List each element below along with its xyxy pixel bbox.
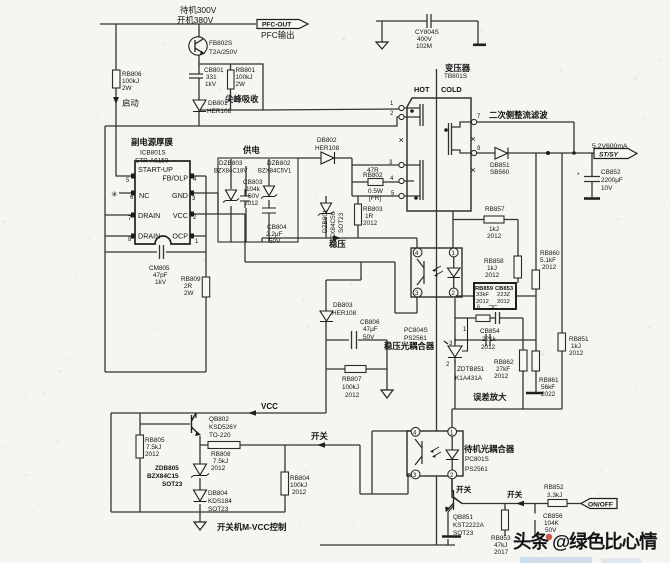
svg-text:副电源厚膜: 副电源厚膜 — [131, 137, 173, 147]
svg-text:RB851: RB851 — [569, 336, 589, 343]
svg-text:1kJ: 1kJ — [571, 343, 581, 350]
svg-text:104K: 104K — [544, 520, 560, 527]
svg-text:×: × — [471, 134, 476, 144]
svg-text:TB801S: TB801S — [444, 73, 467, 80]
svg-text:RB861: RB861 — [539, 377, 559, 384]
svg-text:变压器: 变压器 — [445, 63, 471, 73]
svg-text:2012: 2012 — [211, 465, 226, 472]
svg-text:2W: 2W — [236, 81, 247, 88]
svg-text:RB852: RB852 — [544, 484, 564, 491]
svg-text:ST/SY: ST/SY — [599, 152, 619, 159]
svg-text:⊐⊏: ⊐⊏ — [488, 305, 498, 311]
svg-text:1R: 1R — [365, 213, 374, 220]
svg-text:2012: 2012 — [494, 373, 509, 380]
svg-text:2.2μF: 2.2μF — [266, 231, 283, 238]
svg-text:1kJ: 1kJ — [489, 226, 499, 233]
svg-text:VCC: VCC — [261, 402, 278, 411]
svg-text:47pF: 47pF — [153, 272, 168, 279]
svg-text:二次侧整流滤波: 二次侧整流滤波 — [489, 110, 548, 120]
svg-text:[FR]: [FR] — [369, 195, 381, 202]
svg-text:10V: 10V — [601, 185, 613, 192]
svg-text:PC804S: PC804S — [404, 327, 428, 334]
svg-text:FB802S: FB802S — [209, 40, 232, 47]
svg-text:SB560: SB560 — [490, 169, 510, 176]
svg-text:7.5kJ: 7.5kJ — [146, 444, 161, 451]
svg-text:RB807: RB807 — [342, 376, 362, 383]
svg-text:33kF: 33kF — [476, 292, 489, 298]
svg-text:PFC输出: PFC输出 — [261, 30, 295, 40]
svg-text:100kJ: 100kJ — [342, 384, 359, 391]
svg-text:2012: 2012 — [363, 220, 378, 227]
svg-text:开关: 开关 — [507, 489, 523, 499]
svg-text:47R: 47R — [367, 167, 379, 174]
svg-text:OCP: OCP — [172, 232, 188, 241]
svg-text:KST2222A: KST2222A — [453, 522, 485, 529]
svg-text:RB853: RB853 — [491, 535, 511, 542]
svg-text:PC801S: PC801S — [465, 456, 489, 463]
svg-text:RB809: RB809 — [181, 276, 201, 283]
svg-text:104k: 104k — [246, 186, 261, 193]
svg-text:ICB801S: ICB801S — [140, 150, 166, 157]
svg-text:5.1kF: 5.1kF — [540, 257, 556, 264]
svg-text:PFC-OUT: PFC-OUT — [262, 22, 291, 29]
svg-text:稳压: 稳压 — [329, 239, 346, 249]
svg-text:误差放大: 误差放大 — [473, 392, 507, 402]
svg-text:RB806: RB806 — [122, 71, 142, 78]
svg-text:CB854: CB854 — [480, 328, 500, 335]
svg-text:KDS184: KDS184 — [208, 498, 232, 505]
svg-text:6: 6 — [477, 305, 480, 311]
svg-text:DB804: DB804 — [208, 490, 228, 497]
svg-text:50V: 50V — [363, 334, 375, 341]
svg-text:RB862: RB862 — [494, 359, 514, 366]
svg-text:2W: 2W — [184, 290, 195, 297]
svg-text:2012: 2012 — [569, 350, 584, 357]
svg-text:HER108: HER108 — [315, 145, 340, 152]
svg-text:尖峰吸收: 尖峰吸收 — [225, 94, 259, 104]
svg-text:2012: 2012 — [497, 299, 510, 305]
svg-text:BZX84C15: BZX84C15 — [147, 473, 179, 480]
svg-text:开机380V: 开机380V — [177, 15, 214, 25]
svg-text:ON/OFF: ON/OFF — [588, 502, 613, 509]
svg-text:0.5W: 0.5W — [368, 188, 384, 195]
svg-text:102M: 102M — [416, 43, 432, 50]
svg-text:HOT: HOT — [414, 85, 430, 94]
svg-text:SOT23: SOT23 — [162, 481, 183, 488]
svg-text:ZDTB851: ZDTB851 — [457, 366, 485, 373]
svg-text:ZDB805: ZDB805 — [155, 465, 179, 472]
svg-text:FB/OLP: FB/OLP — [162, 174, 188, 183]
svg-text:50V: 50V — [269, 238, 281, 245]
svg-text:1kV: 1kV — [205, 81, 217, 88]
svg-text:CB803: CB803 — [243, 179, 263, 186]
svg-text:SOT23: SOT23 — [453, 530, 474, 537]
svg-text:K1A431A: K1A431A — [455, 375, 483, 382]
svg-text:1kJ: 1kJ — [487, 265, 497, 272]
svg-text:2012: 2012 — [487, 233, 502, 240]
svg-text:GND: GND — [172, 191, 188, 200]
svg-text:待机300V: 待机300V — [180, 5, 217, 15]
svg-text:DRAIN: DRAIN — [138, 232, 160, 241]
svg-text:2W: 2W — [122, 85, 133, 92]
svg-text:331: 331 — [206, 74, 217, 81]
svg-text:开关: 开关 — [311, 431, 328, 441]
svg-text:RB858: RB858 — [484, 258, 504, 265]
svg-text:RB805: RB805 — [145, 437, 165, 444]
svg-text:223Z: 223Z — [497, 292, 511, 298]
svg-text:2012: 2012 — [481, 344, 496, 351]
svg-text:100kJ: 100kJ — [290, 482, 307, 489]
svg-text:TO-220: TO-220 — [209, 432, 231, 439]
svg-text:×: × — [471, 165, 476, 175]
svg-text:400V: 400V — [417, 36, 433, 43]
svg-text:100kJ: 100kJ — [122, 78, 139, 85]
svg-text:×: × — [399, 135, 404, 145]
svg-text:2012: 2012 — [542, 264, 557, 271]
svg-text:SOT23: SOT23 — [208, 506, 229, 513]
svg-text:CB806: CB806 — [360, 319, 380, 326]
svg-text:RB803: RB803 — [363, 206, 383, 213]
svg-text:头条 @绿色比心情: 头条 @绿色比心情 — [513, 531, 658, 552]
svg-text:1kV: 1kV — [155, 279, 167, 286]
svg-text:47μF: 47μF — [363, 326, 378, 333]
svg-text:BZX84C18V: BZX84C18V — [214, 169, 247, 175]
svg-text:2017: 2017 — [494, 549, 509, 556]
svg-text:DB803: DB803 — [333, 302, 353, 309]
svg-text:QB851: QB851 — [453, 514, 473, 521]
svg-text:DZB802: DZB802 — [267, 160, 291, 167]
svg-text:VCC: VCC — [173, 211, 188, 220]
svg-text:供电: 供电 — [242, 145, 260, 155]
svg-text:COLD: COLD — [441, 85, 462, 94]
svg-text:2012: 2012 — [145, 451, 160, 458]
svg-text:2012: 2012 — [485, 272, 500, 279]
svg-text:CM805: CM805 — [149, 265, 170, 272]
svg-text:T2A/250V: T2A/250V — [209, 49, 238, 56]
svg-text:QB802: QB802 — [209, 416, 229, 423]
svg-text:2012: 2012 — [244, 200, 259, 207]
svg-text:DB851: DB851 — [490, 162, 510, 169]
svg-text:2012: 2012 — [292, 489, 307, 496]
svg-text:启动: 启动 — [122, 98, 139, 108]
svg-text:5.2V600mA: 5.2V600mA — [592, 143, 628, 150]
svg-text:RB808: RB808 — [211, 451, 231, 458]
svg-text:CB801: CB801 — [204, 67, 224, 74]
svg-text:47kJ: 47kJ — [494, 542, 508, 549]
svg-text:NC: NC — [139, 191, 149, 200]
svg-text:待机光耦合器: 待机光耦合器 — [463, 444, 515, 454]
svg-text:HER108: HER108 — [332, 310, 357, 317]
svg-text:50V: 50V — [248, 193, 260, 200]
svg-text:CB804: CB804 — [267, 224, 287, 231]
svg-text:2200μF: 2200μF — [601, 177, 623, 184]
svg-text:STR-A6159: STR-A6159 — [135, 158, 169, 165]
svg-text:RB860: RB860 — [540, 250, 560, 257]
svg-text:CB856: CB856 — [543, 513, 563, 520]
svg-text:KSD526Y: KSD526Y — [209, 424, 238, 431]
svg-text:2022: 2022 — [541, 391, 556, 398]
svg-text:SOT23: SOT23 — [338, 212, 345, 233]
svg-text:BZX84C5V1: BZX84C5V1 — [258, 169, 292, 175]
svg-text:PS2561: PS2561 — [465, 466, 488, 473]
svg-text:DZB801: DZB801 — [322, 209, 329, 233]
svg-text:100kJ: 100kJ — [236, 74, 253, 81]
svg-text:RB801: RB801 — [236, 67, 256, 74]
svg-text:DB802: DB802 — [317, 137, 337, 144]
svg-text:HER108: HER108 — [207, 108, 232, 115]
svg-text:稳压光耦合器: 稳压光耦合器 — [384, 341, 435, 351]
svg-text:2R: 2R — [184, 283, 193, 290]
svg-text:✳: ✳ — [111, 190, 118, 199]
svg-text:27kF: 27kF — [496, 366, 510, 373]
svg-text:56kF: 56kF — [541, 384, 555, 391]
svg-text:RB804: RB804 — [290, 475, 310, 482]
svg-text:2012: 2012 — [345, 392, 360, 399]
svg-text:3.3kJ: 3.3kJ — [547, 492, 562, 499]
svg-text:CY804S: CY804S — [415, 29, 439, 36]
svg-text:7.5kJ: 7.5kJ — [213, 458, 228, 465]
svg-text:开关机M-VCC控制: 开关机M-VCC控制 — [217, 522, 286, 532]
svg-text:RB857: RB857 — [485, 206, 505, 213]
svg-text:DRAIN: DRAIN — [138, 211, 160, 220]
svg-text:开关: 开关 — [456, 484, 472, 494]
svg-text:CB852: CB852 — [601, 169, 621, 176]
svg-text:221k: 221k — [482, 336, 497, 343]
svg-text:DZB803: DZB803 — [219, 160, 243, 167]
